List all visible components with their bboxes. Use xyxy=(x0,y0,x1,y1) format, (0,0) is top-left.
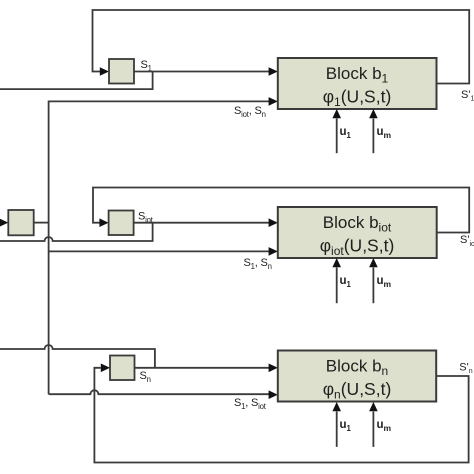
box Siot xyxy=(109,211,134,236)
u1 arrow into block biot bottom xyxy=(336,268,338,304)
svg-text:um: um xyxy=(377,275,392,289)
um arrow into block biot bottom xyxy=(372,268,374,304)
um arrow into block b1 bottom xyxy=(372,119,374,154)
wire row3 lower input (hop over feedback vertical, into block bn) xyxy=(49,390,269,394)
block b1 xyxy=(278,58,437,109)
svg-text:Block bn: Block bn xyxy=(326,356,388,378)
wire Sn output to block bn xyxy=(135,367,270,369)
svg-text:S'iot: S'iot xyxy=(460,234,474,248)
svg-text:u1: u1 xyxy=(340,275,352,289)
wire Siot output to block biot xyxy=(134,222,269,224)
svg-text:u1: u1 xyxy=(340,126,352,140)
u1 arrow into block bn bottom xyxy=(336,412,338,447)
box S1 xyxy=(109,59,134,84)
arrow into block biot upper input xyxy=(269,218,278,227)
wire feedback loop row3 (block bn output to Sn box) xyxy=(94,368,468,463)
wire feedback loop row2 (block biot output to Siot box) xyxy=(93,188,469,233)
wire from left edge joining Sn output (hop over main vertical) xyxy=(0,345,155,368)
block bn xyxy=(278,351,436,402)
svg-text:u1: u1 xyxy=(340,419,352,433)
arrow into block bn upper input xyxy=(269,364,278,373)
arrow into block b1 lower input xyxy=(269,97,278,106)
svg-text:um: um xyxy=(377,419,392,433)
svg-text:Sn: Sn xyxy=(140,370,151,384)
arrow into block bn lower input xyxy=(269,390,278,399)
u1 arrow into block b1 bottom xyxy=(336,119,338,154)
arrow into Siot box xyxy=(99,218,108,227)
svg-text:um: um xyxy=(377,126,392,140)
arrow into block biot lower input xyxy=(269,247,278,256)
svg-text:S'n: S'n xyxy=(459,361,472,375)
arrow into left input box xyxy=(0,218,8,227)
svg-text:S'1: S'1 xyxy=(461,89,474,103)
arrow into block b1 upper input xyxy=(269,67,278,76)
box Sn xyxy=(110,356,135,381)
svg-text:S1, Sn: S1, Sn xyxy=(244,257,272,271)
svg-text:S1, Siot: S1, Siot xyxy=(234,397,267,411)
wire S1 output to block b1 xyxy=(134,71,269,73)
wire from left edge joining S1 output (node at x=152.6) xyxy=(0,72,153,90)
svg-text:φn(U,S,t): φn(U,S,t) xyxy=(323,379,392,402)
svg-text:φ1(U,S,t): φ1(U,S,t) xyxy=(323,87,392,110)
wire row1 lower input (from main vertical to block b1) xyxy=(49,101,269,394)
wire left box output to main vertical xyxy=(34,222,49,224)
svg-text:Block b1: Block b1 xyxy=(326,64,389,86)
um arrow into block bn bottom xyxy=(372,412,374,447)
left input box xyxy=(8,210,33,235)
wire row2 lower input (from main vertical to block biot) xyxy=(49,250,269,252)
svg-text:Siot, Sn: Siot, Sn xyxy=(234,105,266,119)
svg-text:φiot(U,S,t): φiot(U,S,t) xyxy=(320,236,395,259)
block biot xyxy=(278,207,437,258)
arrow into S1 box xyxy=(100,67,109,76)
arrow into Sn box xyxy=(101,364,110,373)
wire from left edge joining Siot output (hop over main vertical) xyxy=(0,223,153,241)
wire feedback loop row1 (block b1 output to S1 box) xyxy=(93,10,470,84)
